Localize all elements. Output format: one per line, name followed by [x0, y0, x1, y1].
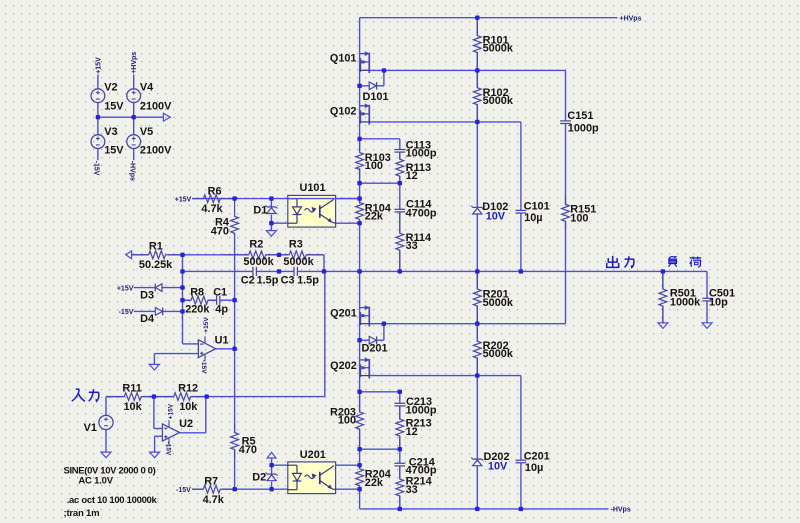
wire U1 inverting input	[183, 343, 199, 345]
nmos Q201	[360, 307, 368, 309]
diode D101	[369, 82, 376, 90]
wire C113 column	[399, 139, 401, 150]
svg-text:5000k: 5000k	[483, 95, 514, 107]
ground U2 input	[150, 452, 160, 458]
wire R1 R2 R3 row	[132, 254, 149, 256]
voltage source V4	[127, 89, 141, 103]
wire main column R204-bottom	[359, 486, 361, 509]
resistor R202	[473, 324, 481, 376]
svg-text:22k: 22k	[365, 210, 384, 222]
svg-text:+15V: +15V	[117, 285, 134, 292]
svg-text:5000k: 5000k	[283, 256, 314, 268]
svg-text:U2: U2	[179, 418, 193, 430]
svg-text:V2: V2	[104, 82, 117, 94]
resistor R113	[396, 152, 404, 183]
zener diode D102	[473, 206, 482, 208]
wire D4 row	[134, 310, 156, 312]
wire C501 column	[706, 271, 708, 298]
svg-text:100: 100	[338, 414, 356, 426]
ground V1	[101, 452, 111, 458]
wire main column gate2	[359, 106, 361, 122]
wire main column to R203	[359, 376, 361, 412]
resistor R213	[396, 406, 404, 449]
svg-text:.ac oct 10 100 10000k: .ac oct 10 100 10000k	[67, 495, 158, 506]
svg-text:R7: R7	[204, 476, 218, 488]
wire R101 R102 column	[476, 18, 478, 36]
capacitor C1	[216, 296, 218, 305]
resistor R11	[106, 393, 154, 401]
wire C213 top row	[360, 391, 400, 393]
svg-text:33: 33	[406, 240, 418, 252]
wire V4 column	[133, 75, 135, 90]
wire V2 V4 common row	[98, 116, 163, 118]
wire R11 R12 row	[106, 396, 122, 398]
svg-text:R2: R2	[249, 239, 263, 251]
wire D3 row	[134, 287, 155, 289]
svg-text:V4: V4	[140, 82, 153, 94]
svg-text:D3: D3	[140, 289, 154, 301]
op-amp U2	[162, 424, 179, 441]
diode D201	[369, 336, 376, 344]
svg-text:220k: 220k	[185, 303, 210, 315]
svg-text:+HVps: +HVps	[131, 52, 138, 74]
wire main column gate4	[359, 360, 361, 376]
wire U101 emitter row	[271, 222, 287, 224]
svg-text:R3: R3	[289, 239, 303, 251]
svg-text:D201: D201	[362, 342, 388, 354]
wire R501 lead	[662, 271, 664, 289]
wire R103 top row	[360, 138, 400, 140]
wire R213 bottom row	[360, 448, 400, 450]
wire C201 column	[520, 376, 522, 461]
svg-text:V3: V3	[104, 126, 117, 138]
svg-text:C151: C151	[567, 110, 593, 122]
svg-text:AC 1.0V: AC 1.0V	[78, 476, 113, 487]
svg-text:5000k: 5000k	[483, 348, 514, 360]
svg-text:D4: D4	[140, 313, 154, 325]
resistor R151	[562, 196, 570, 230]
wire output row	[183, 270, 253, 272]
svg-text:+15V: +15V	[203, 317, 210, 333]
resistor R203	[356, 392, 364, 449]
wire -15V R7 row	[192, 488, 203, 490]
resistor R1	[132, 251, 183, 259]
svg-text:U101: U101	[300, 182, 326, 194]
resistor R201	[473, 271, 481, 323]
wire +HVps top rail	[360, 17, 618, 19]
svg-text:1000k: 1000k	[670, 297, 701, 309]
zener diode D2	[267, 473, 276, 475]
capacitor C101	[516, 209, 527, 211]
svg-text:4.7k: 4.7k	[201, 203, 223, 215]
resistor R101	[473, 18, 481, 71]
resistor R501	[659, 271, 667, 323]
resistor R114	[396, 212, 404, 272]
svg-text:R1: R1	[149, 240, 163, 252]
resistor R102	[473, 70, 481, 122]
diode D4	[155, 308, 162, 316]
wire C214 R214 column	[399, 449, 401, 463]
resistor R4	[231, 199, 239, 235]
wire summing node column	[182, 255, 184, 344]
wire main column output-Q201	[359, 271, 361, 307]
resistor R3	[279, 251, 324, 259]
svg-text:U1: U1	[215, 335, 229, 347]
wire main column top	[359, 18, 361, 54]
capacitor C214	[394, 462, 405, 464]
ground C501	[702, 323, 712, 329]
wire Q201 source row	[369, 323, 566, 325]
svg-text:10k: 10k	[124, 401, 143, 413]
wire D2 column	[271, 458, 273, 474]
resistor R204	[356, 465, 364, 489]
svg-text:10µ: 10µ	[525, 462, 543, 474]
svg-text:1000p: 1000p	[406, 147, 437, 159]
svg-text:+15V: +15V	[175, 196, 192, 203]
resistor R12	[154, 393, 207, 401]
wire U2 output	[180, 432, 206, 434]
svg-text:22k: 22k	[365, 477, 384, 489]
svg-text:10V: 10V	[488, 460, 508, 472]
wire through U101	[288, 198, 360, 200]
svg-text:10µ: 10µ	[524, 212, 542, 224]
svg-text:1000p: 1000p	[568, 123, 599, 135]
svg-text:50.25k: 50.25k	[139, 259, 173, 271]
svg-text:2100V: 2100V	[140, 101, 172, 113]
voltage source V1	[99, 415, 113, 429]
svg-text:5000k: 5000k	[483, 297, 514, 309]
optocoupler U101 box	[288, 195, 336, 227]
svg-text:+15V: +15V	[95, 57, 102, 74]
wire main column mid2	[359, 340, 361, 360]
wire U1 output	[216, 348, 235, 350]
ground below D1	[266, 231, 276, 237]
svg-text:-HVps: -HVps	[129, 161, 136, 181]
svg-text:-15V: -15V	[165, 442, 172, 456]
wire Q102 source row	[369, 121, 521, 123]
svg-text:4700p: 4700p	[406, 207, 437, 219]
svg-text:C2: C2	[241, 275, 255, 287]
nmos Q202	[360, 359, 368, 361]
svg-text:5000k: 5000k	[483, 43, 514, 55]
op-amp U1	[198, 340, 215, 358]
capacitor C151	[560, 120, 571, 122]
svg-text:Q102: Q102	[330, 106, 357, 118]
capacitor C2	[252, 267, 254, 276]
resistor R104	[356, 199, 364, 224]
svg-text:470: 470	[239, 444, 257, 456]
svg-text:-15V: -15V	[93, 161, 100, 176]
optocoupler U201 box	[288, 462, 336, 494]
junction dots	[96, 115, 100, 119]
svg-text:-15V: -15V	[119, 309, 134, 316]
wire U1 output column	[234, 233, 236, 433]
svg-text:2100V: 2100V	[140, 145, 172, 157]
svg-text:R12: R12	[178, 383, 198, 395]
svg-text:10k: 10k	[179, 401, 198, 413]
wire R113 bottom row	[360, 182, 400, 184]
wire main column R104-output	[359, 221, 361, 272]
wire main column gate3	[359, 308, 361, 341]
wire D101 cathode to Q101 source	[377, 85, 384, 87]
svg-text:1.5p: 1.5p	[257, 275, 279, 287]
svg-text:Q101: Q101	[330, 53, 357, 65]
ground U1 input	[149, 364, 159, 370]
wire D202 column	[476, 376, 478, 460]
svg-text:R11: R11	[122, 383, 141, 395]
wire U201 LED anode row	[272, 464, 288, 466]
wire C114 R114 column	[399, 183, 401, 209]
svg-text:-15V: -15V	[200, 360, 207, 374]
port arrow R1 input	[126, 251, 132, 259]
wire feedback column	[323, 255, 325, 272]
capacitor C201	[516, 459, 527, 461]
svg-text:10V: 10V	[486, 211, 506, 223]
port arrow D2 node	[267, 452, 276, 458]
svg-text:1.5p: 1.5p	[297, 275, 319, 287]
wire D1 column	[270, 199, 272, 207]
svg-text:+15V: +15V	[167, 403, 174, 419]
svg-text:10p: 10p	[709, 297, 728, 309]
wire main column R203-R204	[359, 429, 361, 469]
svg-text:5000k: 5000k	[243, 256, 274, 268]
svg-text:470: 470	[211, 225, 229, 237]
svg-text:+HVps: +HVps	[620, 15, 642, 22]
wire U2 noninverting input	[155, 435, 163, 437]
svg-text:12: 12	[406, 170, 418, 182]
nmos Q101	[360, 53, 368, 55]
resistor R6	[192, 195, 234, 203]
wire D201 cathode up	[377, 339, 384, 341]
svg-text:15V: 15V	[104, 101, 124, 113]
label input kanji	[72, 390, 79, 402]
resistor R8	[183, 296, 217, 304]
voltage source V5	[127, 135, 141, 149]
voltage source V3	[91, 135, 105, 149]
svg-text:U201: U201	[300, 449, 326, 461]
wire Q101 source row	[369, 69, 566, 71]
port arrow common node	[163, 113, 170, 121]
wire Q202 source row	[369, 375, 521, 377]
wire main column R103-R104	[359, 168, 361, 203]
resistor R2	[223, 251, 279, 259]
wire C213 column	[399, 392, 401, 404]
svg-text:V1: V1	[84, 422, 97, 434]
svg-text:V5: V5	[140, 126, 153, 138]
wire D102 column	[476, 122, 478, 207]
wire +15V to U101 row	[192, 198, 359, 200]
svg-text:1000p: 1000p	[406, 404, 437, 416]
wire D201 anode	[360, 339, 370, 341]
svg-text:C3: C3	[281, 275, 295, 287]
svg-text:C101: C101	[524, 201, 550, 213]
svg-text:-HVps: -HVps	[611, 507, 631, 514]
wire U1 noninverting input	[154, 353, 198, 355]
svg-text:4.7k: 4.7k	[203, 494, 225, 506]
resistor R214	[396, 466, 404, 509]
capacitor C114	[394, 208, 405, 210]
wire V2 column	[97, 75, 99, 90]
label output kanji	[612, 256, 614, 268]
voltage source V2	[91, 89, 105, 103]
capacitor C213	[394, 402, 405, 404]
zener diode D202	[473, 458, 482, 460]
svg-text:100: 100	[570, 213, 588, 225]
svg-text:D101: D101	[363, 91, 389, 103]
resistor R103	[356, 139, 364, 183]
ground R501	[658, 323, 668, 329]
capacitor C3	[293, 267, 295, 276]
resistor R7	[192, 485, 235, 493]
wire D101 anode	[360, 85, 370, 87]
label load kanji	[669, 257, 676, 259]
svg-text:C1: C1	[213, 286, 227, 298]
svg-text:15V: 15V	[104, 145, 124, 157]
wire C151 R151 column	[565, 70, 567, 121]
nmos Q102	[360, 105, 368, 107]
svg-text:D1: D1	[253, 204, 267, 216]
svg-text:33: 33	[406, 484, 418, 496]
diode D3	[154, 284, 156, 292]
wire -HVps bottom rail	[360, 508, 609, 510]
svg-text:4p: 4p	[215, 303, 228, 315]
wire V1 column	[105, 397, 107, 416]
svg-text:Q201: Q201	[330, 307, 357, 319]
svg-text:R8: R8	[190, 286, 204, 298]
wire main column gate1	[359, 54, 361, 86]
svg-text:Q202: Q202	[330, 360, 357, 372]
svg-text:R6: R6	[208, 186, 222, 198]
wire main column to R103	[359, 122, 361, 151]
svg-text:C201: C201	[524, 450, 550, 462]
svg-text:100: 100	[365, 160, 383, 172]
resistor R5	[231, 424, 239, 458]
svg-text:;tran 1m: ;tran 1m	[64, 508, 100, 519]
svg-text:12: 12	[406, 426, 418, 438]
svg-text:-15V: -15V	[176, 487, 191, 494]
svg-text:D2: D2	[252, 471, 266, 483]
wire R8 C1 row	[183, 299, 191, 301]
capacitor C501	[702, 297, 711, 299]
wire main column mid1	[359, 86, 361, 106]
wire R201 R202 column	[476, 271, 478, 289]
capacitor C113	[394, 149, 405, 151]
wire C101 column	[520, 122, 522, 210]
zener diode D1	[267, 206, 276, 208]
wire U2 inverting input	[153, 397, 155, 429]
